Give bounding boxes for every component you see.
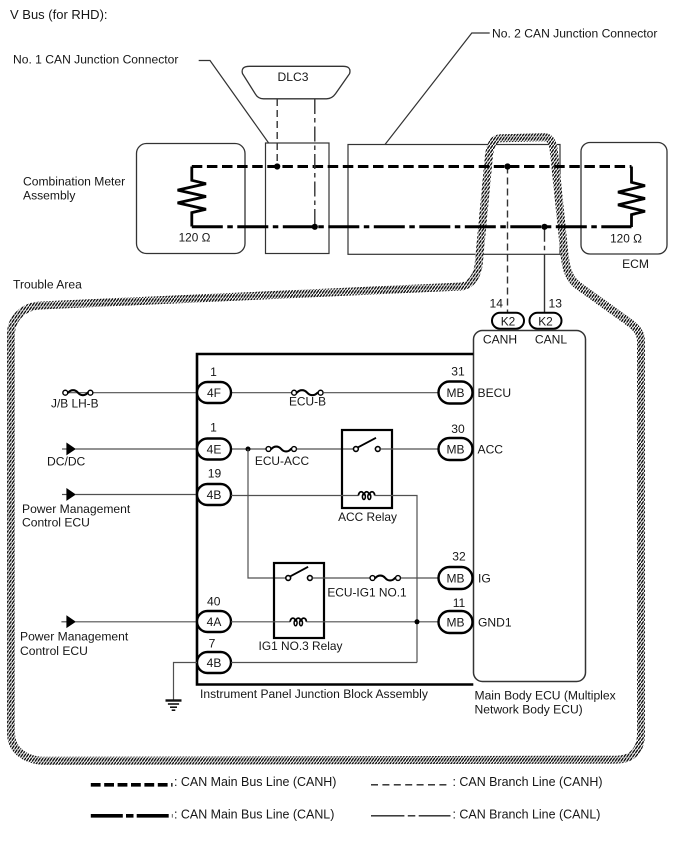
wire row3 arrow to 4B xyxy=(75,494,197,496)
wire vertical from 4E junction down to IG1 relay xyxy=(248,449,286,578)
svg-text:BECU: BECU xyxy=(478,386,512,400)
svg-text:120 Ω: 120 Ω xyxy=(179,231,211,245)
wire row2 4E to junction xyxy=(231,448,266,450)
svg-text:K2: K2 xyxy=(501,314,516,328)
label ECM xyxy=(622,257,649,271)
wire row3 4B to ACC relay coil xyxy=(231,495,359,497)
switch contact in IG1 NO.3 relay xyxy=(286,567,312,581)
legend CAN Branch Line CANH xyxy=(371,775,603,789)
label Main Body ECU caption xyxy=(475,689,616,717)
wire row6 4B to vertical xyxy=(231,662,417,664)
svg-text:Main Body ECU (Multiplex: Main Body ECU (Multiplex xyxy=(475,689,616,703)
node junction dot CANL at No.2 connector xyxy=(541,224,547,230)
connector MB pin 11 GND1 xyxy=(439,596,512,633)
svg-text:ECU-IG1 NO.1: ECU-IG1 NO.1 xyxy=(327,586,407,600)
svg-text:Control ECU: Control ECU xyxy=(22,516,90,530)
svg-text:32: 32 xyxy=(452,550,466,564)
node junction dot after 4E xyxy=(246,447,251,452)
svg-text:No. 1 CAN Junction Connector: No. 1 CAN Junction Connector xyxy=(13,53,178,67)
net label CANH xyxy=(483,333,517,347)
title text V Bus xyxy=(10,7,108,22)
wire CAN branch from DLC3 CANH (thin dashed) xyxy=(276,99,278,167)
wire row1 4F to ECU-B fuse xyxy=(231,392,292,394)
coil ACC relay xyxy=(359,492,375,500)
svg-text:14: 14 xyxy=(490,297,504,311)
svg-text:4B: 4B xyxy=(207,488,222,502)
svg-text:7: 7 xyxy=(209,637,216,651)
node junction dot CANH at No.1 connector xyxy=(274,163,280,169)
svg-text:IG: IG xyxy=(478,572,491,586)
svg-text:MB: MB xyxy=(447,386,465,400)
svg-text:11: 11 xyxy=(453,596,466,610)
wire CAN main bus CANL (thick dash-dot) xyxy=(192,225,632,228)
svg-text:V Bus (for RHD):: V Bus (for RHD): xyxy=(10,7,108,22)
wire row1 J/B LH-B to 4F xyxy=(68,392,197,394)
leader line to No.1 junction connector xyxy=(199,61,269,144)
arrow input DC/DC xyxy=(47,443,86,468)
net label CANL xyxy=(535,333,568,347)
svg-text:MB: MB xyxy=(447,443,465,457)
legend CAN Main Bus Line CANH xyxy=(91,775,337,789)
box No.2 CAN junction connector xyxy=(348,145,560,255)
wire CAN branch to K2 CANH (thin dashed) xyxy=(507,167,509,314)
wire row2 ACC relay to MB ACC xyxy=(380,448,438,450)
svg-text:ECU-B: ECU-B xyxy=(289,395,326,409)
svg-text:1: 1 xyxy=(210,421,217,435)
box No.1 CAN junction connector xyxy=(266,143,330,254)
svg-text:Instrument Panel Junction Bloc: Instrument Panel Junction Block Assembly xyxy=(200,687,429,701)
connector MB pin 30 ACC xyxy=(439,422,504,460)
svg-text:Power Management: Power Management xyxy=(20,630,129,644)
box Instrument Panel Junction Block Assembly xyxy=(197,354,473,685)
svg-text:GND1: GND1 xyxy=(478,616,512,630)
trouble area hatched boundary xyxy=(11,137,641,761)
relay IG1 NO.3 Relay box xyxy=(259,563,343,653)
node junction dot CANL at No.1 connector xyxy=(312,224,318,230)
svg-text:4E: 4E xyxy=(207,443,222,457)
connector K2 CANL xyxy=(530,313,562,329)
resistor 120 ohm (ECM) xyxy=(610,167,645,246)
svg-text:J/B LH-B: J/B LH-B xyxy=(51,397,99,411)
label Instrument Panel Junction Block Assembly xyxy=(200,687,429,701)
svg-text:40: 40 xyxy=(207,595,221,609)
coil IG1 NO.3 relay xyxy=(290,618,306,626)
svg-text:31: 31 xyxy=(451,365,465,379)
svg-text:120 Ω: 120 Ω xyxy=(610,232,642,246)
wire row2 arrow to 4E xyxy=(75,448,197,450)
connector MB pin 31 BECU xyxy=(439,365,512,404)
svg-text:30: 30 xyxy=(451,422,465,436)
pin number 14 xyxy=(490,297,504,311)
svg-text:: CAN Branch Line (CANH): : CAN Branch Line (CANH) xyxy=(453,775,603,789)
fuse ECU-IG1 NO.1 xyxy=(327,576,407,600)
fuse J/B LH-B xyxy=(51,390,99,410)
wire row1 ECU-B to MB BECU xyxy=(323,392,438,394)
wire CAN branch from DLC3 CANL (thin dash-dot) xyxy=(314,99,316,227)
svg-text:DC/DC: DC/DC xyxy=(47,455,86,469)
wire row3 coil to vertical xyxy=(375,496,417,663)
legend CAN Main Bus Line CANL xyxy=(91,808,335,822)
svg-text:ECM: ECM xyxy=(622,257,649,271)
resistor 120 ohm (combination meter) xyxy=(178,167,211,245)
node junction dot row5 at x417 xyxy=(415,619,420,624)
wire row6 4B to ground xyxy=(174,663,198,700)
svg-text:ACC Relay: ACC Relay xyxy=(338,510,397,524)
wire row5 coil to MB GND1 xyxy=(306,621,438,623)
svg-text:Power Management: Power Management xyxy=(22,502,131,516)
fuse ECU-ACC xyxy=(255,447,310,468)
label Combination Meter Assembly xyxy=(23,175,125,203)
ground xyxy=(166,701,182,711)
box Main Body ECU xyxy=(474,331,586,682)
svg-text:19: 19 xyxy=(208,467,222,481)
svg-text:Assembly: Assembly xyxy=(23,189,76,203)
box Combination Meter Assembly xyxy=(137,144,246,254)
svg-text:CANH: CANH xyxy=(483,333,517,347)
switch contact in ACC relay xyxy=(354,438,381,452)
wire row4 IG1 relay to ECU-IG1 fuse xyxy=(312,577,370,579)
node junction dot CANH at No.2 connector xyxy=(504,163,510,169)
wire CAN branch to K2 CANL (thin dash-dot) xyxy=(544,227,546,313)
svg-text:4F: 4F xyxy=(207,386,221,400)
connector MB pin 32 IG xyxy=(439,550,491,590)
label Trouble Area xyxy=(13,278,82,292)
arrow input Power Management Control ECU (row3) xyxy=(22,489,131,530)
wire row5 4A to IG1 coil xyxy=(231,621,290,623)
svg-text:: CAN Main Bus Line (CANL): : CAN Main Bus Line (CANL) xyxy=(174,808,334,822)
svg-text:13: 13 xyxy=(549,297,563,311)
wire row4 fuse to MB IG xyxy=(401,577,439,579)
svg-text:K2: K2 xyxy=(538,314,553,328)
wire row2 ECU-ACC to ACC relay xyxy=(297,448,354,450)
svg-text:Network Body ECU): Network Body ECU) xyxy=(475,703,583,717)
svg-text:4B: 4B xyxy=(207,656,222,670)
svg-text:Combination Meter: Combination Meter xyxy=(23,175,125,189)
pin number 13 xyxy=(549,297,563,311)
fuse ECU-B xyxy=(289,390,326,408)
label No. 2 CAN Junction Connector xyxy=(492,27,657,41)
connector DLC3 xyxy=(242,66,350,99)
svg-text:Control ECU: Control ECU xyxy=(20,644,88,658)
svg-text:4A: 4A xyxy=(207,615,222,629)
legend CAN Branch Line CANL xyxy=(371,808,600,822)
svg-text:MB: MB xyxy=(447,572,465,586)
wire row5 arrow to 4A xyxy=(75,621,197,623)
svg-text:DLC3: DLC3 xyxy=(278,70,309,84)
wire CAN main bus CANH (thick dashed) xyxy=(192,165,632,168)
arrow input Power Management Control ECU (row5) xyxy=(20,616,129,658)
svg-text:ACC: ACC xyxy=(478,443,504,457)
connector 4E pin 1 xyxy=(197,421,231,460)
connector K2 CANH xyxy=(492,313,524,329)
svg-text:: CAN Main Bus Line (CANH): : CAN Main Bus Line (CANH) xyxy=(174,775,336,789)
svg-text:CANL: CANL xyxy=(535,333,568,347)
svg-text:1: 1 xyxy=(210,365,217,379)
connector 4B pin 19 xyxy=(197,467,231,506)
connector 4A pin 40 xyxy=(197,595,231,633)
svg-text:Trouble Area: Trouble Area xyxy=(13,278,82,292)
box ECM xyxy=(581,143,667,255)
relay ACC Relay box xyxy=(338,430,397,524)
connector 4B pin 7 xyxy=(197,637,231,674)
svg-text:IG1 NO.3 Relay: IG1 NO.3 Relay xyxy=(259,639,343,653)
leader line to No.2 junction connector xyxy=(385,33,490,145)
connector 4F pin 1 xyxy=(197,365,231,403)
svg-text:ECU-ACC: ECU-ACC xyxy=(255,454,310,468)
svg-text:MB: MB xyxy=(447,616,465,630)
label No. 1 CAN Junction Connector xyxy=(13,53,178,67)
svg-text:: CAN Branch Line (CANL): : CAN Branch Line (CANL) xyxy=(453,808,601,822)
svg-text:No. 2 CAN Junction Connector: No. 2 CAN Junction Connector xyxy=(492,27,657,41)
